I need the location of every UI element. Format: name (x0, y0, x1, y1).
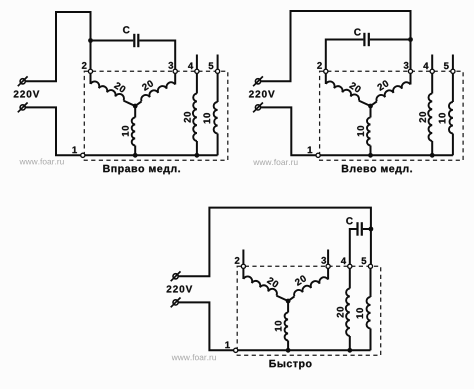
winding 2-C (20 ohm) (243, 266, 288, 301)
junction dot A (cap tap) (408, 37, 413, 42)
label node 5 (209, 62, 214, 69)
label 220V (3 Bystro) (167, 285, 193, 292)
junction dot w4-bottom (347, 348, 352, 353)
label node 1 (308, 147, 312, 154)
winding 4 (20 ohm) (193, 71, 197, 155)
label 10 (winding 5) (203, 113, 210, 123)
mains terminal N (1 Vpravo) (18, 103, 28, 113)
winding 3-C (20 ohm) (135, 71, 175, 106)
node 5 terminal (368, 264, 372, 268)
open stub wire a (431, 55, 433, 72)
label 20 (winding 2-C) (349, 82, 362, 93)
label 220V (2 Vlevo) (249, 90, 275, 97)
caption 'Влево медл.' (342, 165, 412, 174)
caption 'Быстро' (269, 360, 311, 369)
label node 4 (188, 63, 193, 70)
mains terminal N (3 Bystro) (171, 298, 181, 308)
winding 3-C (20 ohm) (288, 266, 328, 301)
capacitor C (91, 34, 176, 72)
junction dot star-bottom (368, 153, 373, 158)
capacitor C (350, 222, 371, 266)
label 10 (winding 5) (356, 308, 363, 318)
junction dot star-bottom (286, 348, 291, 353)
node 1 terminal (316, 153, 320, 157)
label 20 (winding 4) (184, 112, 191, 123)
label C (2 Vlevo) (354, 28, 361, 35)
label node 2 (235, 257, 240, 264)
winding 5 (10 ohm) (214, 71, 218, 155)
open stub wire a (242, 250, 244, 267)
node 3 terminal (173, 69, 177, 73)
label 10 (winding C-1) (275, 321, 282, 331)
node 4 terminal (430, 69, 434, 73)
motor housing (dashed box) (237, 266, 381, 355)
label 10 (winding 5) (439, 113, 446, 123)
wire mains N to node 1 and motor common (178, 302, 370, 350)
junction dot w4-bottom (195, 153, 200, 158)
node 1 terminal (81, 153, 85, 157)
node 3 terminal (408, 69, 412, 73)
node 2 terminal (324, 69, 328, 73)
mains terminal L1 (2 Vlevo) (253, 76, 263, 86)
caption 'Вправо медл.' (103, 165, 180, 174)
junction dot star-bottom (133, 153, 138, 158)
motor housing (dashed box) (84, 71, 228, 160)
label 10 (winding C-1) (357, 126, 364, 136)
winding 4 (20 ohm) (346, 266, 350, 350)
mains terminal L1 (1 Vpravo) (18, 76, 28, 86)
capacitor C (326, 33, 411, 72)
junction dot w4-bottom (430, 153, 435, 158)
label node 2 (82, 62, 87, 69)
wire mains L1 to node 2 (26, 12, 91, 81)
winding 2-C (20 ohm) (91, 71, 136, 106)
label 20 (winding 3-C) (141, 80, 154, 91)
wire mains L1 to node 3 (261, 11, 411, 81)
motor housing (dashed box) (320, 71, 464, 160)
mains terminal N (2 Vlevo) (253, 103, 263, 113)
label 220V (1 Vpravo) (14, 90, 40, 97)
label node 4 (341, 258, 346, 265)
node 2 terminal (241, 264, 245, 268)
label C (1 Vpravo) (123, 26, 130, 33)
label node 2 (317, 62, 322, 69)
junction dot A (cap tap) (88, 38, 93, 43)
open stub wire b (217, 55, 219, 72)
winding C-1 (10 ohm) (367, 106, 371, 155)
label node 1 (225, 342, 229, 349)
label node 5 (444, 62, 449, 69)
star point node C (368, 104, 373, 109)
label node 3 (168, 62, 173, 69)
wire mains N to node 1 and motor common (26, 107, 218, 155)
label 20 (winding 3-C) (294, 275, 307, 286)
star point node C (133, 104, 138, 109)
open stub wire b (452, 55, 454, 72)
open stub wire a (196, 55, 198, 72)
node 5 terminal (216, 69, 220, 73)
node 4 terminal (348, 264, 352, 268)
winding 5 (10 ohm) (449, 71, 453, 155)
label 10 (winding C-1) (122, 126, 129, 136)
label node 4 (423, 63, 428, 70)
node 2 terminal (88, 69, 92, 73)
watermark www.foar.ru (172, 354, 216, 360)
winding 3-C (20 ohm) (371, 71, 411, 106)
label 20 (winding 2-C) (267, 277, 280, 288)
label node 1 (72, 147, 76, 154)
winding 4 (20 ohm) (428, 71, 432, 155)
winding 2-C (20 ohm) (326, 71, 371, 106)
mains terminal L1 (3 Bystro) (171, 271, 181, 281)
winding 5 (10 ohm) (367, 266, 371, 350)
label 20 (winding 3-C) (377, 80, 390, 91)
winding C-1 (10 ohm) (285, 301, 288, 350)
open stub wire b (327, 250, 329, 267)
node 3 terminal (326, 264, 330, 268)
label node 5 (362, 257, 367, 264)
label 20 (winding 4) (419, 112, 426, 123)
label 20 (winding 4) (337, 307, 344, 318)
wire mains L1 to node 5 (178, 208, 371, 277)
watermark www.foar.ru (253, 159, 297, 165)
node 5 terminal (451, 69, 455, 73)
wire mains N to node 1 and motor common (261, 107, 453, 155)
node 4 terminal (195, 69, 199, 73)
label C (3 Bystro) (346, 217, 353, 224)
watermark www.foar.ru (19, 158, 63, 164)
winding C-1 (10 ohm) (132, 106, 136, 155)
junction dot A (cap tap) (369, 227, 374, 232)
label node 3 (321, 257, 326, 264)
star point node C (286, 299, 291, 304)
node 1 terminal (234, 348, 238, 352)
label node 3 (404, 62, 409, 69)
label 20 (winding 2-C) (114, 82, 127, 93)
